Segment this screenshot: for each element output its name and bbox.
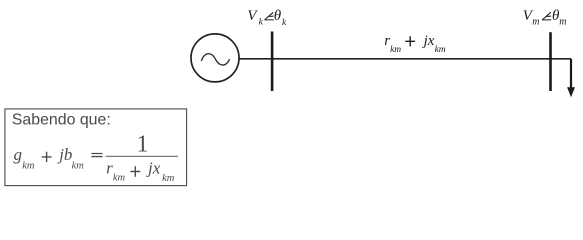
svg-text:km: km — [390, 45, 401, 55]
svg-text:km: km — [435, 45, 446, 55]
svg-text:jx: jx — [422, 33, 435, 49]
svg-text:Sabendo que:: Sabendo que: — [12, 111, 111, 128]
wire from source through buses to load corner — [239, 58, 571, 60]
denominator plus sign — [130, 166, 140, 176]
AC source G1 sine wave — [201, 54, 229, 65]
svg-text:km: km — [162, 173, 175, 184]
svg-text:1: 1 — [137, 131, 149, 157]
svg-text:km: km — [72, 160, 85, 171]
bus m bar — [549, 32, 552, 91]
load arrow from bus m — [570, 59, 572, 88]
svg-text:m: m — [532, 16, 539, 27]
line impedance label r_km — [384, 33, 401, 55]
fraction denominator jx_km — [146, 158, 175, 184]
svg-text:m: m — [559, 17, 566, 28]
svg-text:km: km — [22, 160, 35, 171]
formula jb_km — [57, 145, 84, 171]
svg-text:jb: jb — [57, 145, 72, 164]
bus k bar — [271, 32, 274, 92]
angle symbol for Vk — [265, 12, 274, 20]
formula box frame — [5, 109, 187, 186]
svg-text:θ: θ — [274, 8, 282, 24]
impedance plus sign — [405, 36, 415, 46]
svg-text:g: g — [14, 145, 23, 164]
formula g_km — [14, 145, 35, 171]
line impedance label jx_km — [422, 33, 446, 55]
angle symbol for Vm — [542, 12, 551, 20]
AC source G1 circle — [191, 34, 239, 82]
formula plus sign — [42, 152, 52, 162]
svg-text:jx: jx — [146, 158, 161, 177]
svg-text:km: km — [113, 172, 126, 183]
fraction denominator r_km — [106, 158, 125, 183]
fraction bar — [106, 155, 179, 157]
formula equals sign — [91, 154, 102, 157]
node label Vk — [247, 8, 287, 28]
node label Vm — [523, 8, 567, 27]
